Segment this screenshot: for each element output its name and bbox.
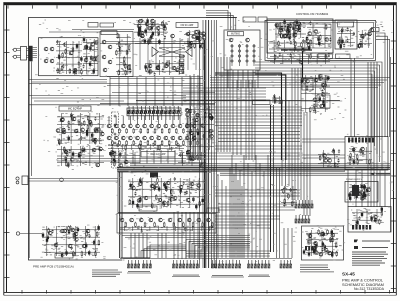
- resistor R134: [146, 66, 148, 72]
- value label: [356, 162, 358, 164]
- transistor Q127: [156, 26, 160, 30]
- block function switch: [345, 137, 388, 171]
- control enclosure outline: [265, 20, 376, 60]
- wire grid bundle: [145, 60, 184, 75]
- wire: [32, 81, 107, 83]
- capacitor C146: [298, 26, 300, 30]
- connector pin CN6-7: [232, 260, 234, 268]
- capacitor C185: [273, 96, 275, 100]
- jack J1 PHONO L: [13, 48, 16, 51]
- capacitor C258: [46, 237, 48, 243]
- capacitor C157: [308, 45, 310, 51]
- wire drop muting: [242, 70, 244, 88]
- wire bus V6: [216, 20, 218, 268]
- value label: [336, 156, 338, 158]
- svg-text:No.312 T313SDDA: No.312 T313SDDA: [354, 287, 385, 291]
- capacitor C114: [83, 64, 85, 68]
- block control right: [335, 20, 357, 49]
- connector pin CN4b-3: [149, 260, 151, 268]
- legend text 2: [362, 247, 388, 249]
- wire bus H low: [210, 77, 390, 79]
- wire: [127, 113, 181, 115]
- transistor Q261: [74, 232, 78, 236]
- wire drop FM: [145, 77, 147, 106]
- capacitor C186: [80, 136, 82, 140]
- capacitor C165: [289, 54, 291, 58]
- wire drop matrix: [139, 150, 141, 164]
- wire drop bankB: [157, 233, 159, 258]
- capacitor C105: [58, 54, 60, 58]
- resistor R125: [161, 21, 163, 27]
- transistor Q262: [86, 229, 90, 233]
- resistor R252: [350, 153, 352, 159]
- wire grid bundle: [352, 209, 382, 224]
- resistor R243: [313, 106, 315, 112]
- value label: [309, 61, 311, 63]
- resistor R262: [314, 247, 316, 253]
- capacitor C290: [349, 161, 351, 165]
- resistor R108: [72, 47, 74, 53]
- resistor R197: [190, 140, 192, 146]
- capacitor C123: [144, 28, 146, 34]
- jack J3: [16, 177, 19, 180]
- wire bus V2: [205, 20, 207, 268]
- transistor Q213: [178, 136, 182, 140]
- capacitor C319: [331, 252, 333, 258]
- wire drop: [177, 212, 179, 259]
- connector pin CN4-3: [134, 260, 136, 268]
- capacitor C115: [89, 61, 91, 67]
- resistor R183: [183, 128, 185, 134]
- wire tangle H: [218, 141, 300, 143]
- wire corner bundle bottom: [195, 245, 250, 258]
- resistor R140: [287, 30, 289, 36]
- value label: [188, 140, 190, 142]
- resistor R204: [186, 123, 188, 129]
- wire drop FM: [181, 77, 183, 106]
- transistor Q165: [370, 28, 374, 32]
- transistor Q282: [367, 188, 371, 192]
- resistor R136: [182, 62, 184, 68]
- wire tangle V: [217, 57, 219, 152]
- wire grid bundle: [184, 30, 205, 48]
- note line: [300, 271, 334, 273]
- wire tangle V2: [254, 80, 256, 160]
- wire weave H5: [215, 227, 270, 229]
- resistor R101: [57, 68, 59, 74]
- capacitor C202: [65, 150, 67, 154]
- wire drop FM: [154, 77, 156, 106]
- wire drop FM: [118, 77, 120, 106]
- resistor R254: [379, 219, 381, 225]
- resistor R128: [149, 37, 151, 43]
- resistor R181: [168, 128, 170, 134]
- wire: [129, 116, 131, 124]
- transistor Q175: [56, 129, 60, 133]
- wire weave H: [215, 115, 302, 117]
- wire left rail 1: [28, 62, 30, 259]
- resistor R237: [73, 233, 75, 239]
- capacitor C245: [171, 194, 173, 198]
- capacitor C101: [59, 55, 61, 59]
- wire: [302, 157, 345, 159]
- wire corner bundle bottom: [192, 243, 250, 258]
- label box FM SC AMP: [176, 23, 198, 28]
- wire bus bold: [204, 40, 206, 268]
- wire: [186, 116, 188, 124]
- capacitor C218: [192, 138, 194, 142]
- resistor R165: [59, 139, 61, 145]
- capacitor C145: [294, 27, 296, 31]
- capacitor C216: [202, 134, 204, 138]
- value label: [93, 40, 95, 42]
- wire: [112, 92, 215, 94]
- capacitor C184: [273, 94, 275, 98]
- transistor Q187: [64, 150, 68, 154]
- transistor Q285: [331, 233, 335, 237]
- wire grid bundle: [56, 41, 70, 74]
- capacitor C194: [68, 121, 70, 125]
- capacitor C322: [323, 231, 325, 237]
- resistor R138: [294, 33, 296, 39]
- wire grid bundle: [178, 152, 206, 166]
- connector CN2 block: [29, 46, 33, 62]
- capacitor C205: [72, 151, 74, 157]
- capacitor C148: [283, 19, 285, 25]
- capacitor C281: [302, 78, 304, 82]
- capacitor C132: [164, 35, 166, 39]
- transistor Q181: [74, 129, 78, 133]
- capacitor C222: [113, 157, 115, 163]
- capacitor C247: [192, 196, 194, 202]
- resistor R178: [147, 128, 149, 134]
- value label: [58, 254, 60, 256]
- capacitor C212: [177, 143, 179, 147]
- label box MUTING: [228, 32, 244, 36]
- capacitor C166: [300, 61, 302, 65]
- transistor Q233: [162, 201, 166, 205]
- connector pin CN6-8: [235, 260, 237, 268]
- transistor Q132: [188, 43, 192, 47]
- wire weave V: [285, 100, 287, 186]
- value label: [194, 184, 196, 186]
- wire bold control drop: [302, 50, 304, 78]
- label box REC SEL: [253, 100, 271, 105]
- capacitor C273: [321, 89, 323, 93]
- resistor R174: [119, 128, 121, 134]
- resistor R201: [157, 145, 159, 151]
- wire grid bundle: [110, 152, 140, 166]
- value label: [293, 201, 295, 203]
- wire grid bundle: [57, 146, 104, 166]
- connector pin CN6-6: [229, 260, 231, 268]
- value label: [192, 189, 194, 191]
- transistor Q172: [92, 138, 96, 142]
- transistor Q182: [88, 120, 92, 124]
- wire bus H: [255, 68, 377, 154]
- transistor Q166: [357, 44, 361, 48]
- wire: [57, 158, 186, 160]
- wire weave H5: [215, 221, 270, 223]
- resistor R163: [94, 139, 96, 145]
- transistor Q144: [229, 38, 233, 42]
- wire: [165, 116, 167, 124]
- transistor Q274: [328, 159, 332, 163]
- capacitor C201: [67, 162, 69, 168]
- wire: [28, 178, 118, 180]
- wire drop: [185, 212, 187, 259]
- resistor R102: [62, 52, 64, 58]
- transistor Q255: [207, 218, 211, 222]
- transistor Q119: [141, 34, 145, 38]
- wire drop muting: [227, 70, 229, 88]
- resistor R127: [138, 31, 140, 37]
- transistor Q177: [81, 128, 85, 132]
- wire corner bundle: [206, 18, 236, 30]
- wire: [100, 43, 200, 45]
- resistor R224: [144, 222, 146, 228]
- capacitor C301: [366, 187, 368, 193]
- capacitor C130: [158, 39, 160, 45]
- label box MIC EQ AMP: [59, 106, 91, 111]
- value label: [127, 36, 129, 38]
- transistor Q260: [60, 229, 64, 233]
- capacitor C265: [97, 225, 99, 231]
- border frame bottom line: [4, 291, 397, 293]
- control enclosure inner line: [268, 22, 374, 58]
- transistor Q161: [314, 30, 318, 34]
- capacitor C280: [323, 97, 325, 101]
- capacitor C304: [370, 218, 372, 222]
- wire tangle V2: [245, 80, 247, 160]
- transistor Q104: [50, 59, 54, 63]
- value label: [133, 145, 135, 147]
- value label: [64, 51, 66, 53]
- capacitor C171: [341, 27, 343, 33]
- wire: [105, 41, 200, 43]
- capacitor C238: [132, 199, 134, 205]
- transistor Q272: [314, 78, 318, 82]
- transistor Q158: [297, 28, 301, 32]
- border frame left outer line: [3, 2, 5, 295]
- capacitor C136: [144, 64, 146, 70]
- resistor R141: [286, 33, 288, 39]
- legend note line: [92, 271, 122, 273]
- wire drop matrix: [181, 150, 183, 164]
- wire drop FM: [109, 77, 111, 106]
- wire drop: [259, 163, 261, 258]
- block FM SC amp: [100, 32, 133, 77]
- transistor Q292: [330, 238, 334, 242]
- capacitor C230: [174, 177, 176, 181]
- wire drop matrix: [167, 150, 169, 164]
- capacitor C294: [357, 189, 359, 195]
- capacitor C150: [60, 178, 64, 182]
- value label: [178, 227, 180, 229]
- wire: [100, 102, 215, 104]
- wire: [127, 110, 181, 112]
- capacitor C261: [89, 234, 91, 238]
- value label: [366, 210, 368, 212]
- wire bold pair down 2: [121, 172, 123, 258]
- transistor Q225: [194, 118, 198, 122]
- wire bus center: [183, 99, 266, 101]
- wire right drop: [354, 58, 356, 137]
- transistor Q286: [314, 241, 318, 245]
- resistor R196: [183, 140, 185, 146]
- block head-amp: [39, 38, 99, 76]
- svg-text:CONTROL FM 731SB402: CONTROL FM 731SB402: [296, 12, 329, 16]
- wire drop FM: [199, 77, 201, 106]
- switch S1 contact 6: [114, 160, 116, 162]
- capacitor C320: [321, 248, 323, 252]
- switch contact chain S3: [238, 44, 240, 66]
- switch S1 contact 3: [114, 133, 116, 135]
- capacitor C311: [308, 251, 310, 257]
- connector pin CN10-3: [301, 200, 303, 208]
- note paragraph line: [352, 255, 384, 257]
- capacitor C302: [349, 195, 351, 201]
- transistor Q232: [137, 199, 141, 203]
- wire right bus: [373, 62, 375, 207]
- capacitor C156: [318, 41, 320, 47]
- resistor R185: [197, 128, 199, 134]
- resistor R117: [117, 33, 119, 39]
- resistor R214: [164, 182, 166, 188]
- connector CN4 label: [127, 272, 151, 273]
- value label: [377, 219, 379, 221]
- wire corner bundle: [206, 15, 233, 30]
- wire drop 2: [217, 174, 219, 258]
- capacitor C306: [356, 220, 358, 226]
- value label: [76, 135, 78, 137]
- capacitor C163: [294, 46, 296, 50]
- resistor R184: [190, 128, 192, 134]
- transistor Q294: [324, 248, 328, 252]
- transistor Q142: [164, 64, 168, 68]
- connector pin CN11-3: [301, 215, 303, 223]
- wire right link: [379, 170, 381, 207]
- connector pin CN8-3: [286, 260, 288, 268]
- transistor Q216: [210, 134, 214, 138]
- transistor Q226: [189, 131, 193, 135]
- resistor R200: [139, 143, 141, 149]
- capacitor C168: [328, 53, 330, 57]
- wire right link: [384, 170, 386, 207]
- legend symbol 1: [354, 240, 358, 243]
- capacitor C164: [302, 48, 304, 52]
- transistor Q114: [102, 55, 106, 59]
- wire bold FM bus: [136, 100, 340, 102]
- wire corner bundle bottom: [186, 240, 250, 259]
- resistor R216: [157, 178, 159, 184]
- wire drop bankA: [134, 233, 136, 258]
- capacitor C195: [91, 132, 93, 138]
- transistor Q271: [321, 93, 325, 97]
- resistor R111: [125, 63, 127, 69]
- border frame bottom outer line: [4, 294, 397, 296]
- capacitor C138: [158, 64, 160, 68]
- resistor R131: [202, 43, 204, 49]
- connector CN3: [22, 176, 28, 185]
- switch S1 contact 2: [114, 124, 116, 126]
- resistor R255: [381, 210, 383, 216]
- value label: [122, 69, 124, 71]
- capacitor C109: [73, 69, 75, 75]
- transistor Q228: [119, 164, 123, 168]
- wire: [186, 155, 300, 157]
- block power supply: [345, 182, 378, 203]
- transistor Q241: [190, 182, 194, 186]
- wire weave H6: [215, 145, 302, 147]
- switch contact chain S2: [231, 44, 233, 66]
- value label: [69, 43, 71, 45]
- legend note line: [92, 275, 116, 277]
- transistor Q266: [320, 104, 324, 108]
- wire: [27, 49, 29, 58]
- transistor Q148: [275, 23, 279, 27]
- wire drop bankE: [283, 228, 285, 258]
- resistor R154: [310, 53, 312, 59]
- value label: [147, 72, 149, 74]
- wire tangle V2: [248, 80, 250, 160]
- connector pin CN4b-2: [146, 260, 148, 268]
- wire drop: [243, 155, 245, 258]
- wire bank rail: [120, 258, 292, 260]
- transistor Q249: [149, 218, 153, 222]
- transistor Q107: [91, 42, 95, 46]
- value label: [157, 198, 159, 200]
- resistor R182: [176, 128, 178, 134]
- resistor R104: [65, 49, 67, 55]
- capacitor C119: [146, 18, 148, 24]
- transistor Q270: [313, 98, 317, 102]
- resistor R208: [114, 161, 116, 167]
- capacitor C225: [179, 153, 181, 157]
- value label: [154, 181, 156, 183]
- value label: [189, 119, 191, 121]
- block dial lamps: [348, 207, 391, 233]
- value label: [163, 66, 165, 68]
- wire drop: [231, 155, 233, 258]
- wire drop 2: [213, 168, 215, 258]
- capacitor C140: [181, 63, 183, 67]
- transistor Q164: [306, 39, 310, 43]
- resistor R247: [334, 162, 336, 168]
- transistor Q212: [171, 136, 175, 140]
- transistor Q110: [84, 45, 88, 49]
- resistor R248: [357, 159, 359, 165]
- transistor Q239: [166, 181, 170, 185]
- capacitor C213: [139, 147, 141, 151]
- value label: [146, 226, 148, 228]
- resistor R166: [78, 120, 80, 126]
- resistor R209: [197, 154, 199, 160]
- svg-text:PRE AMP PCB (731SB4021A): PRE AMP PCB (731SB4021A): [33, 265, 74, 269]
- wire drop matrix: [118, 150, 120, 164]
- capacitor C151: [287, 23, 289, 27]
- resistor R148: [320, 35, 322, 41]
- transistor Q111: [84, 58, 88, 62]
- transistor Q196: [150, 124, 154, 128]
- resistor R135: [182, 68, 184, 74]
- capacitor C307: [370, 215, 372, 221]
- value label: [198, 115, 200, 117]
- resistor R266: [330, 237, 332, 243]
- resistor R162: [72, 116, 74, 122]
- resistor R223: [135, 222, 137, 228]
- transistor Q203: [107, 136, 111, 140]
